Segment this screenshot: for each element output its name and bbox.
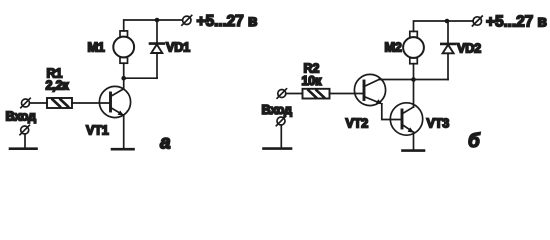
resistor R2	[303, 89, 330, 99]
wire diode anode to motor node	[124, 77, 157, 79]
wire emitter VT3 to ground	[413, 132, 415, 150]
transistor VT2	[354, 74, 385, 105]
power terminal +5...27 В	[182, 15, 192, 25]
node collector/motor junction	[121, 76, 126, 81]
svg-text:VT3: VT3	[427, 116, 450, 130]
wire collector VT2 to node	[379, 79, 414, 81]
motor M1	[113, 31, 134, 63]
diode VD1	[150, 20, 164, 78]
input terminal (signal)	[21, 98, 30, 107]
node collector junction b	[411, 77, 416, 82]
wire node to motor M2 bottom	[413, 64, 415, 80]
wire input to R1	[30, 102, 48, 104]
input terminal (ground side)	[20, 125, 29, 134]
svg-text:VT1: VT1	[86, 123, 109, 137]
transistor VT3	[390, 103, 422, 135]
svg-text:M1: M1	[88, 40, 105, 54]
wire collector VT1 up to motor node	[123, 78, 125, 89]
svg-text:VD2: VD2	[457, 42, 481, 56]
svg-text:+5...27 в: +5...27 в	[197, 13, 258, 30]
wire node to motor bottom	[123, 63, 125, 78]
wire diode anode to node	[414, 79, 449, 81]
wire collector VT3 to node	[413, 80, 415, 108]
node power rail junction b	[445, 19, 450, 24]
motor M2	[403, 31, 424, 63]
svg-text:2,2к: 2,2к	[46, 79, 70, 93]
wire emitter VT1 to ground	[123, 115, 125, 149]
wire R1 to base of VT1	[72, 102, 110, 104]
wire emitter VT2 to base VT3	[382, 104, 402, 120]
svg-text:б: б	[468, 131, 481, 152]
svg-text:Вход: Вход	[6, 110, 37, 124]
wire R2 to base of VT2	[330, 93, 364, 95]
resistor R1	[47, 98, 72, 108]
svg-text:а: а	[160, 133, 171, 154]
power terminal 2 +5...27 В	[472, 16, 482, 26]
wire ground terminal 2 to ground	[280, 125, 282, 148]
svg-text:VD1: VD1	[166, 41, 190, 55]
svg-text:+5...27 в: +5...27 в	[486, 14, 547, 31]
svg-text:VT2: VT2	[346, 116, 369, 130]
diode VD2	[441, 21, 455, 80]
input terminal 2 (signal)	[277, 89, 286, 98]
ground (input)	[10, 147, 37, 150]
ground (input 2)	[264, 147, 292, 150]
node power rail junction	[155, 18, 160, 23]
ground (emitter VT3)	[403, 149, 425, 152]
wire motor top to power rail	[124, 20, 183, 31]
svg-text:M2: M2	[385, 41, 402, 55]
transistor VT1	[99, 86, 130, 117]
svg-text:Вход: Вход	[262, 103, 293, 117]
wire motor top to power rail	[414, 21, 473, 31]
input terminal 2 (ground side)	[276, 116, 285, 125]
wire ground terminal to ground	[24, 134, 26, 148]
svg-text:10к: 10к	[302, 74, 323, 88]
wire input to R2	[286, 93, 303, 95]
ground (emitter VT1)	[112, 148, 134, 151]
